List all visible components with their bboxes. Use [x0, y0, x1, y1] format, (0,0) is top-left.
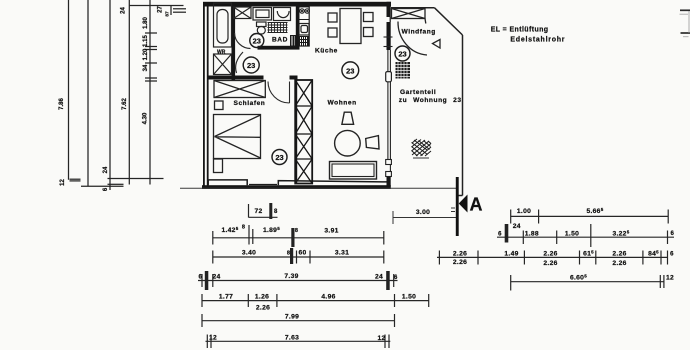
svg-text:Schlafen: Schlafen	[234, 100, 266, 107]
svg-text:23: 23	[247, 61, 255, 70]
svg-text:2.26: 2.26	[543, 251, 557, 258]
svg-text:2.26: 2.26	[543, 260, 557, 267]
svg-text:2.26: 2.26	[612, 251, 626, 258]
svg-text:BAD: BAD	[272, 37, 288, 44]
svg-text:5.665: 5.665	[586, 207, 603, 215]
svg-text:23: 23	[275, 153, 283, 162]
svg-text:1.15: 1.15	[143, 35, 149, 47]
svg-text:6: 6	[498, 232, 502, 238]
svg-text:7.99: 7.99	[285, 314, 299, 321]
svg-text:2.26: 2.26	[612, 260, 626, 267]
svg-text:24: 24	[212, 274, 220, 281]
svg-text:Edelstahlrohr: Edelstahlrohr	[510, 37, 565, 44]
svg-text:EL = Entlüftung: EL = Entlüftung	[491, 27, 549, 34]
svg-text:3.40: 3.40	[242, 250, 256, 257]
svg-text:Gartenteil: Gartenteil	[400, 89, 436, 96]
svg-text:7.39: 7.39	[284, 273, 298, 280]
svg-text:87: 87	[165, 11, 171, 17]
svg-text:4.30: 4.30	[143, 112, 149, 124]
svg-text:6: 6	[103, 187, 109, 191]
svg-text:8: 8	[295, 228, 298, 234]
svg-text:23: 23	[398, 49, 406, 58]
svg-text:12: 12	[209, 335, 217, 342]
svg-text:1.00: 1.00	[517, 208, 531, 215]
svg-text:7.63: 7.63	[285, 335, 299, 342]
svg-text:24: 24	[513, 223, 521, 230]
svg-text:1.20: 1.20	[143, 48, 149, 60]
svg-text:2.26: 2.26	[453, 251, 467, 258]
svg-text:3.225: 3.225	[612, 230, 629, 238]
svg-text:1.50: 1.50	[565, 231, 579, 238]
svg-text:6: 6	[394, 275, 398, 281]
svg-text:72: 72	[254, 208, 262, 215]
svg-text:24: 24	[103, 166, 109, 173]
svg-text:Wohnen: Wohnen	[328, 100, 357, 107]
svg-text:1.895: 1.895	[263, 226, 280, 234]
svg-text:Windfang: Windfang	[402, 29, 436, 36]
svg-text:3.91: 3.91	[324, 228, 338, 235]
svg-text:60: 60	[298, 250, 306, 257]
svg-text:8: 8	[287, 251, 290, 257]
svg-text:12: 12	[377, 335, 385, 342]
svg-text:6: 6	[198, 275, 202, 281]
svg-text:1.88: 1.88	[525, 231, 539, 238]
svg-text:845: 845	[648, 250, 659, 258]
svg-text:8: 8	[242, 225, 245, 231]
svg-text:2.26: 2.26	[256, 305, 270, 312]
svg-text:3.00: 3.00	[416, 209, 430, 216]
svg-text:1.77: 1.77	[219, 294, 233, 301]
svg-text:zu Wohnung 23: zu Wohnung 23	[399, 97, 462, 104]
svg-text:12: 12	[666, 275, 674, 282]
svg-text:6: 6	[670, 231, 674, 237]
svg-text:6: 6	[670, 252, 674, 258]
svg-text:Küche: Küche	[315, 48, 338, 55]
svg-text:1.80: 1.80	[143, 17, 149, 29]
svg-text:4.96: 4.96	[321, 294, 335, 301]
svg-text:6.605: 6.605	[570, 274, 587, 282]
svg-text:27: 27	[158, 6, 164, 13]
svg-text:7.86: 7.86	[59, 98, 65, 110]
svg-text:1.26: 1.26	[255, 294, 269, 301]
svg-text:23: 23	[346, 66, 354, 75]
svg-text:34: 34	[143, 64, 149, 71]
svg-text:3.31: 3.31	[335, 250, 349, 257]
svg-text:615: 615	[583, 250, 594, 258]
svg-text:12: 12	[60, 179, 66, 186]
svg-text:1.425: 1.425	[221, 226, 238, 234]
svg-text:24: 24	[120, 7, 126, 14]
svg-text:23: 23	[253, 36, 261, 45]
svg-text:1.50: 1.50	[402, 294, 416, 301]
svg-text:A: A	[470, 195, 483, 215]
svg-text:1.49: 1.49	[504, 251, 518, 258]
svg-text:8: 8	[274, 209, 278, 215]
svg-text:2.26: 2.26	[453, 259, 467, 266]
svg-text:7.62: 7.62	[122, 98, 128, 110]
svg-text:WR: WR	[217, 50, 226, 56]
svg-text:24: 24	[375, 274, 383, 281]
